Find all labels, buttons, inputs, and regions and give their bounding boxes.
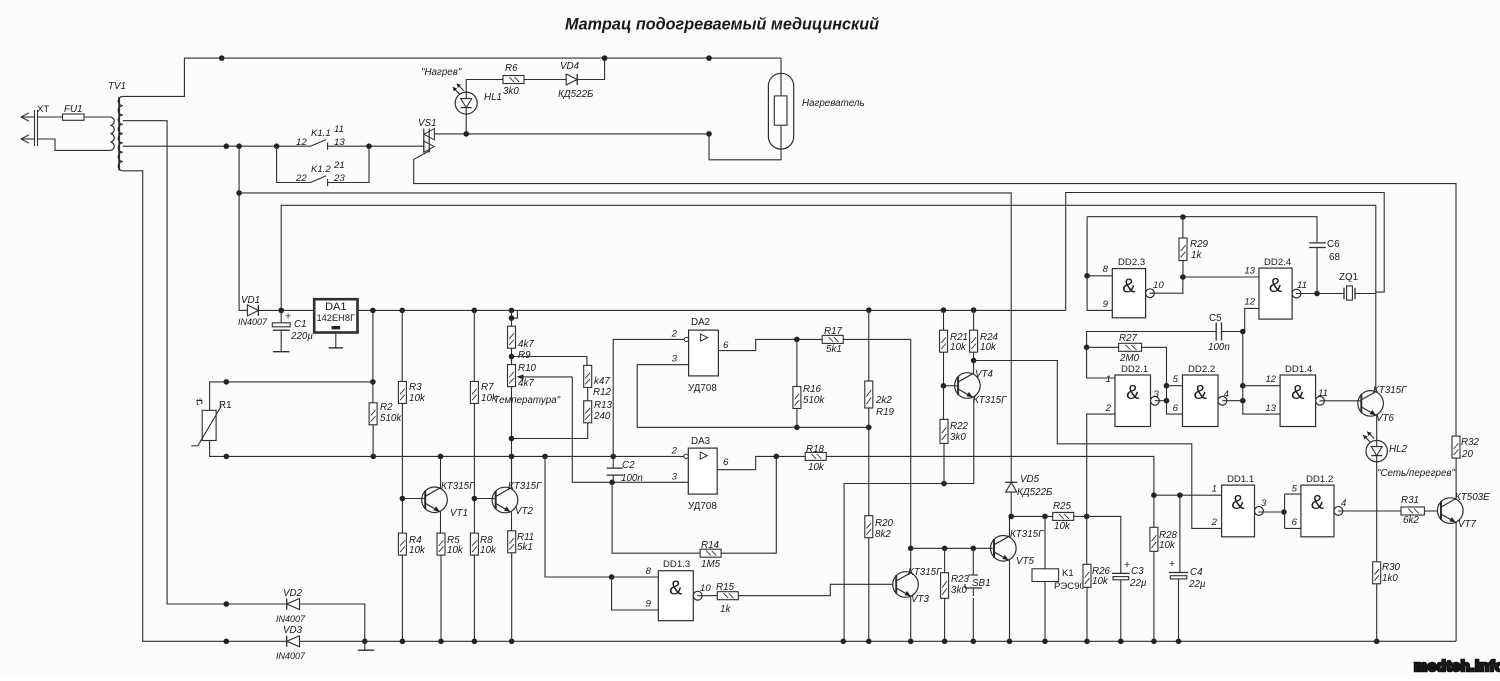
wire DD2.1 output	[1155, 400, 1167, 402]
resistor R18 10k	[805, 452, 826, 460]
wire secondary main tap	[123, 145, 311, 147]
svg-text:4: 4	[1224, 389, 1229, 400]
node VT2 base junction	[472, 496, 478, 502]
svg-text:3k0: 3k0	[950, 432, 966, 443]
svg-text:R18: R18	[806, 444, 825, 455]
relay coil K1 РЭС90	[1044, 516, 1046, 568]
node VT4 collector junction	[971, 358, 977, 364]
node C4 top junction	[1177, 492, 1183, 498]
wire R10 wiper	[572, 377, 688, 482]
push button SB1	[972, 548, 974, 575]
svg-text:R14: R14	[701, 540, 720, 551]
svg-text:DD1.2: DD1.2	[1306, 474, 1333, 485]
svg-text:10k: 10k	[480, 545, 497, 556]
diode VD4 КД522Б	[566, 74, 577, 85]
resistor R32 20	[1452, 436, 1460, 458]
resistor R21 10k	[943, 310, 945, 330]
resistor R9 4k7	[511, 310, 513, 326]
wire DA2 inverting input riser	[613, 339, 686, 456]
transistor VT2 КТ315Г	[492, 487, 518, 513]
crystal ZQ1	[1343, 288, 1345, 300]
svg-text:11: 11	[1297, 280, 1307, 291]
svg-text:VT7: VT7	[1458, 519, 1477, 530]
svg-text:DD1.3: DD1.3	[663, 559, 690, 570]
svg-text:1M5: 1M5	[701, 559, 721, 570]
svg-text:VT1: VT1	[450, 508, 468, 519]
diode VD5 КД522Б	[1005, 481, 1017, 483]
op-amp DA2 УД708	[689, 330, 719, 376]
node R29 bottom junction	[1180, 274, 1186, 280]
wire DA3 output	[717, 456, 805, 469]
svg-text:1: 1	[1106, 374, 1111, 385]
logic gate DD1.2	[1301, 485, 1334, 537]
svg-text:R9: R9	[518, 350, 531, 361]
svg-text:+: +	[1169, 558, 1175, 570]
wire R3 bottom / VT1 base column	[401, 403, 403, 533]
svg-text:8: 8	[646, 566, 652, 577]
wire R13 bottom return	[512, 423, 588, 439]
svg-text:VT3: VT3	[911, 594, 930, 605]
resistor R29 1k	[1182, 217, 1184, 238]
wire DA1 ground pin	[335, 333, 337, 348]
svg-text:КТ315Г: КТ315Г	[973, 395, 1007, 406]
svg-text:K1.1: K1.1	[311, 128, 331, 139]
svg-text:3k0: 3k0	[503, 86, 519, 97]
svg-text:FU1: FU1	[64, 104, 83, 115]
svg-text:&: &	[1126, 382, 1140, 404]
svg-text:C3: C3	[1131, 566, 1144, 577]
wire DD2.1 pin1	[1087, 347, 1115, 378]
resistor R5 10k	[437, 533, 445, 555]
svg-text:10k: 10k	[1092, 576, 1109, 587]
node HL1 bottom junction	[463, 131, 469, 137]
svg-text:R25: R25	[1053, 501, 1072, 512]
wire HL2 to R30	[1376, 462, 1378, 562]
svg-text:12: 12	[1265, 374, 1276, 385]
fuse FU1	[38, 116, 63, 118]
svg-text:VD1: VD1	[241, 295, 260, 306]
logic gate DD2.4	[1259, 268, 1292, 319]
svg-text:6k2: 6k2	[1403, 515, 1419, 526]
node R9/R10 junction	[511, 348, 513, 364]
svg-text:5: 5	[1292, 484, 1298, 495]
svg-text:t°: t°	[196, 397, 203, 408]
svg-text:2: 2	[671, 446, 678, 457]
resistor R27 2M0	[1087, 346, 1119, 348]
resistor R11 5k1	[508, 531, 516, 553]
wire DD2.2 input tie	[1167, 386, 1183, 414]
resistor R15 1k	[717, 592, 738, 600]
node VT4 base junction	[941, 383, 947, 389]
node artifact dot b	[224, 601, 230, 607]
node heater return junction	[706, 131, 712, 137]
svg-text:6: 6	[723, 457, 729, 468]
svg-text:КТ315Г: КТ315Г	[1373, 385, 1407, 396]
svg-text:R7: R7	[481, 382, 494, 393]
svg-text:XT: XT	[37, 104, 49, 115]
wire VT4 collector to DD1.1 pin2	[973, 361, 975, 374]
svg-text:11: 11	[1318, 388, 1328, 399]
svg-text:510k: 510k	[380, 413, 402, 424]
svg-text:+: +	[285, 311, 291, 323]
svg-text:10k: 10k	[409, 545, 426, 556]
wire R1 top	[372, 310, 374, 402]
wire +9V riser to right side	[1066, 193, 1385, 311]
svg-text:10: 10	[700, 583, 711, 594]
svg-text:3: 3	[1261, 498, 1267, 509]
wire +9V rail	[358, 309, 1066, 311]
svg-text:2k2: 2k2	[875, 395, 892, 406]
svg-text:23: 23	[333, 173, 345, 184]
transistor VT1 КТ315Г	[422, 487, 448, 513]
svg-text:8: 8	[1103, 264, 1109, 275]
wire VT5 base line	[911, 547, 993, 549]
svg-text:УД708: УД708	[688, 383, 717, 394]
wire secondary top tap to top rail	[123, 58, 781, 96]
wire R25 node to DD2.1 pin2	[1087, 414, 1115, 516]
wire secondary bottom tap to bottom-left rail	[123, 171, 287, 642]
wire heater bottom return	[709, 125, 781, 160]
wire VD1 to DA1	[258, 309, 314, 311]
node VT3 collector junction	[908, 546, 914, 552]
svg-text:10: 10	[1153, 280, 1164, 291]
svg-text:R12: R12	[593, 387, 612, 398]
svg-text:C4: C4	[1190, 567, 1203, 578]
svg-text:10k: 10k	[950, 342, 967, 353]
node R22 bottom junction	[941, 481, 947, 487]
svg-text:K1.2: K1.2	[311, 164, 331, 175]
svg-text:4k7: 4k7	[518, 378, 534, 389]
svg-text:VD3: VD3	[283, 625, 303, 636]
svg-text:12: 12	[1244, 297, 1255, 308]
node VD2 ground junction	[362, 639, 368, 645]
svg-text:R2: R2	[380, 402, 393, 413]
resistor R25 10k	[1053, 512, 1074, 520]
wire DD2.4 pin13 line	[1183, 276, 1259, 278]
resistor R22 3k0	[943, 386, 945, 420]
svg-text:R3: R3	[409, 382, 422, 393]
wire VT4 emitter to ground route	[844, 398, 974, 642]
svg-text:Нагреватель: Нагреватель	[802, 98, 865, 109]
node VD4 top rail junction	[602, 55, 608, 61]
svg-text:5k1: 5k1	[517, 542, 533, 553]
resistor R26 10k	[1086, 516, 1088, 564]
resistor R31 6k2	[1401, 507, 1424, 515]
svg-text:DA2: DA2	[691, 317, 710, 328]
wire R7 bottom / VT2 base column	[473, 403, 475, 533]
wire C5 net	[1087, 332, 1217, 348]
resistor R6 3k0	[503, 76, 524, 84]
node C1 junction	[278, 308, 284, 314]
wire VT2 collector	[511, 456, 513, 488]
node raw AC junction y192	[236, 190, 242, 196]
node VT1 base junction	[400, 496, 406, 502]
node R13 return junction	[509, 436, 515, 442]
resistor R7 10k	[473, 310, 475, 381]
svg-text:C1: C1	[294, 319, 307, 330]
svg-text:5: 5	[1173, 374, 1179, 385]
node DD1.2 input junction	[1281, 509, 1287, 515]
svg-text:13: 13	[1244, 266, 1255, 277]
svg-text:DA3: DA3	[691, 436, 711, 447]
resistor R16 510k	[796, 339, 798, 386]
svg-text:3: 3	[672, 354, 678, 365]
wire DD2.3 output	[1150, 277, 1183, 293]
svg-text:4: 4	[1341, 498, 1346, 509]
wire DD2.4 output to ZQ1	[1296, 293, 1344, 295]
wire VD4 to top rail	[577, 58, 604, 79]
svg-text:11: 11	[334, 124, 344, 135]
logic gate DD1.4	[1280, 375, 1316, 427]
wire HL1 top	[466, 80, 503, 93]
svg-text:SB1: SB1	[972, 578, 991, 589]
svg-text:1: 1	[1212, 484, 1217, 495]
svg-text:R22: R22	[950, 421, 969, 432]
svg-text:VT6: VT6	[1376, 413, 1395, 424]
svg-text:VD5: VD5	[1020, 474, 1040, 485]
ground C1	[273, 351, 290, 353]
svg-text:10k: 10k	[808, 462, 825, 473]
connector XT	[21, 116, 35, 118]
relay contact K1.1	[310, 140, 326, 147]
transistor VT4 КТ315Г	[955, 373, 981, 399]
node C6 bottom junction	[1314, 291, 1320, 297]
node C5 output junction	[1240, 329, 1246, 335]
transistor VT7 КТ503Е	[1438, 498, 1464, 524]
resistor R20 8k2	[868, 427, 870, 515]
wire mains lower	[38, 139, 111, 150]
svg-text:"Температура": "Температура"	[490, 395, 561, 406]
wire VD5 to VT5 collector node	[1010, 492, 1012, 516]
svg-text:K1: K1	[1062, 568, 1074, 579]
wire R15 to VT3 base	[738, 584, 893, 595]
svg-text:&: &	[1194, 382, 1208, 404]
svg-text:13: 13	[334, 137, 345, 148]
resistor R13 240	[587, 387, 589, 400]
svg-text:R23: R23	[951, 574, 970, 585]
node AC wire dots	[224, 143, 230, 149]
svg-text:6: 6	[723, 340, 729, 351]
svg-text:100n: 100n	[1208, 342, 1230, 353]
svg-text:+: +	[1124, 559, 1130, 571]
svg-text:C5: C5	[1209, 313, 1222, 324]
svg-text:КТ315Г: КТ315Г	[908, 567, 942, 578]
node K1 coil junction	[1042, 514, 1048, 520]
svg-text:DD2.1: DD2.1	[1121, 364, 1148, 375]
logic gate DD2.1	[1115, 375, 1151, 427]
svg-text:КТ315Г: КТ315Г	[508, 481, 542, 492]
wire VT1 emitter	[440, 512, 442, 533]
resistor R17 5k1	[822, 335, 843, 343]
resistor R23 3k0	[944, 548, 946, 572]
svg-text:КД522Б: КД522Б	[558, 89, 594, 100]
wire node A tap to DD1.3	[545, 456, 612, 577]
wire oscillator top line	[1087, 217, 1317, 243]
resistor R8 10k	[470, 533, 478, 555]
resistor R14 1M5	[612, 482, 700, 553]
svg-text:142ЕН8Г: 142ЕН8Г	[316, 313, 355, 323]
svg-text:R20: R20	[875, 518, 894, 529]
wire DD2.3 input bus	[1087, 217, 1112, 311]
relay contact K1.2	[277, 146, 311, 182]
svg-text:РЭС90: РЭС90	[1054, 581, 1085, 592]
svg-text:R30: R30	[1382, 562, 1401, 573]
node ground rail junctions	[224, 639, 230, 645]
svg-text:9: 9	[646, 599, 652, 610]
node top rail junction 2	[706, 55, 712, 61]
svg-text:R1: R1	[219, 400, 232, 411]
svg-text:68: 68	[1329, 252, 1340, 263]
svg-text:DD1.1: DD1.1	[1227, 474, 1254, 485]
wire DD1.4 input bus	[1243, 332, 1280, 415]
svg-text:510k: 510k	[803, 395, 825, 406]
wire DD1.3 output	[697, 595, 717, 597]
svg-text:IN4007: IN4007	[276, 651, 306, 661]
node C2 bottom junction	[609, 480, 615, 486]
resistor R30 1k0	[1373, 562, 1381, 584]
logic gate DD2.3	[1112, 269, 1145, 318]
svg-text:3: 3	[672, 472, 678, 483]
LED HL1	[455, 92, 477, 114]
node R29 top junction	[1180, 214, 1186, 220]
svg-text:22µ: 22µ	[1129, 578, 1147, 589]
node artifact dot a	[224, 379, 230, 385]
svg-text:VT4: VT4	[975, 369, 994, 380]
wire secondary middle tap down-left side	[123, 121, 287, 604]
svg-text:VT2: VT2	[515, 506, 534, 517]
node DD2.2 input junctions	[1164, 383, 1170, 389]
svg-text:10k: 10k	[409, 393, 426, 404]
wire VT3 collector stub	[910, 548, 912, 573]
wire R31 to VT7 base	[1424, 510, 1437, 512]
svg-text:&: &	[669, 578, 683, 600]
op-amp DA3 УД708	[688, 448, 717, 494]
logic gate DD1.1	[1222, 485, 1255, 537]
resistor R28 10k	[1150, 527, 1158, 551]
svg-text:6: 6	[1173, 403, 1179, 414]
node R27 left junction	[1084, 345, 1090, 351]
svg-text:R6: R6	[505, 63, 518, 74]
wire DD1.4 output to VT6 base	[1320, 400, 1362, 402]
svg-text:DA1: DA1	[325, 301, 346, 313]
wire VT1 collector	[440, 456, 442, 487]
svg-text:R13: R13	[594, 400, 613, 411]
node VT5 collector junction	[1008, 514, 1014, 520]
wire DD1.2 input tie	[1284, 494, 1286, 528]
wire VT7 collector	[1455, 459, 1457, 499]
node DD1.4 input junctions	[1240, 383, 1246, 389]
svg-text:КТ315Г: КТ315Г	[441, 481, 475, 492]
node DD2.3 pin8 junction	[1084, 273, 1090, 279]
wire VT3 emitter	[910, 597, 912, 642]
wire VS1 anode out	[434, 133, 709, 135]
wire DD2.2 output	[1222, 400, 1243, 402]
diode VD3 IN4007	[286, 636, 288, 647]
svg-text:9: 9	[1103, 299, 1109, 310]
node A dots	[224, 454, 230, 460]
resistor R2 510k	[369, 403, 377, 425]
node R23 top junction	[942, 546, 948, 552]
svg-text:22µ: 22µ	[1188, 579, 1206, 590]
svg-text:medteh.info: medteh.info	[1414, 658, 1500, 675]
node pin3 net dots	[794, 425, 800, 431]
svg-text:22: 22	[295, 173, 307, 184]
wire ground rail	[300, 640, 1457, 642]
svg-text:&: &	[1122, 276, 1136, 298]
svg-text:ZQ1: ZQ1	[1339, 272, 1358, 283]
svg-text:6: 6	[1292, 517, 1298, 528]
wire AC net to VD5 column	[239, 193, 1011, 482]
node SB1 top junction	[971, 546, 977, 552]
logic gate DD1.3	[612, 576, 659, 578]
node top rail junction	[219, 55, 225, 61]
svg-text:3: 3	[1154, 389, 1160, 400]
svg-text:C6: C6	[1327, 239, 1340, 250]
heater Нагреватель	[768, 73, 793, 149]
wire raw DC net to right side	[281, 205, 1376, 390]
svg-text:&: &	[1291, 382, 1305, 404]
svg-text:VS1: VS1	[418, 118, 437, 129]
LED HL2	[1366, 440, 1387, 461]
svg-text:2: 2	[1105, 403, 1112, 414]
wire VT6 emitter to HL2	[1376, 416, 1378, 441]
wire VT5 collector	[1009, 516, 1011, 536]
wire DD1.2 output to R31	[1338, 510, 1401, 512]
svg-text:VD2: VD2	[283, 588, 303, 599]
node R14 riser junction	[774, 454, 780, 460]
svg-text:2: 2	[671, 329, 678, 340]
svg-text:220µ: 220µ	[290, 331, 313, 342]
ground bottom rail	[358, 649, 374, 651]
svg-text:C2: C2	[622, 460, 635, 471]
svg-text:IN4007: IN4007	[276, 614, 306, 624]
svg-text:1k: 1k	[720, 604, 731, 615]
svg-text:R16: R16	[803, 384, 822, 395]
capacitor C2 100n	[607, 467, 623, 469]
svg-text:R27: R27	[1119, 333, 1138, 344]
wire VD1 anode column	[239, 146, 248, 310]
svg-text:1k: 1k	[1191, 250, 1202, 261]
wire HL1 bottom	[465, 114, 467, 134]
svg-text:R15: R15	[716, 582, 735, 593]
wire DD1.1 pin1 line	[1154, 494, 1222, 496]
potentiometer R10 4k7	[508, 365, 516, 387]
wire heater top feed	[780, 58, 782, 96]
wire DD1.1 output	[1258, 511, 1284, 513]
svg-text:&: &	[1231, 492, 1245, 514]
wire R18 out to DD1.1 pin1 column	[826, 456, 1154, 527]
diode VD2 IN4007	[286, 599, 288, 610]
resistor R19 2k2	[868, 310, 870, 381]
wire R10 bottom	[511, 387, 513, 488]
svg-text:R10: R10	[518, 363, 537, 374]
transistor VT5 КТ315Г	[991, 536, 1017, 562]
wire VT2 emitter	[511, 512, 513, 531]
capacitor C4 22u	[1179, 495, 1181, 572]
node K1.1 out junction	[366, 143, 372, 149]
svg-text:"Нагрев": "Нагрев"	[421, 67, 462, 78]
logic gate DD2.2	[1183, 375, 1219, 427]
svg-text:2M0: 2M0	[1119, 353, 1140, 364]
diode VD1 IN4007	[247, 305, 258, 316]
svg-text:1k0: 1k0	[1382, 573, 1398, 584]
wire R25 input line	[1011, 515, 1052, 517]
svg-text:DD2.3: DD2.3	[1118, 257, 1145, 268]
svg-text:100n: 100n	[621, 473, 643, 484]
svg-text:10k: 10k	[1054, 521, 1071, 532]
wire VT7 emitter	[1455, 522, 1457, 641]
svg-text:240: 240	[593, 411, 611, 422]
